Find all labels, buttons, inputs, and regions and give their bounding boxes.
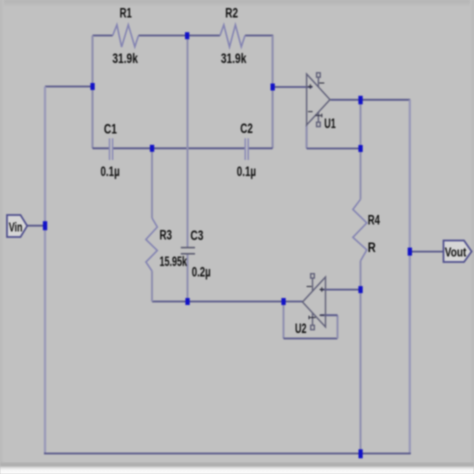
wire U2 output row to R3 C3 bottom — [152, 301, 303, 303]
wire top between R1 and R2 — [139, 35, 221, 37]
wire U2 top input to R4 line — [320, 289, 360, 291]
wire U1 output horizontal — [331, 99, 411, 101]
wire right vertical x272.6 down to C row — [272, 36, 274, 149]
svg-text:R1: R1 — [120, 6, 133, 21]
wire top from left corner to R1 — [93, 35, 113, 37]
svg-text:U2: U2 — [295, 321, 307, 336]
junction node U1 output — [358, 96, 362, 105]
wire Vout lead — [410, 251, 443, 253]
svg-text:U1: U1 — [324, 116, 336, 131]
svg-text:R3: R3 — [160, 228, 173, 243]
svg-text:R: R — [368, 240, 376, 255]
junction node bottom rail — [359, 449, 363, 458]
svg-text:0.2µ: 0.2µ — [192, 265, 211, 280]
svg-text:Vout: Vout — [445, 246, 467, 260]
wire left jog horizontal — [45, 86, 93, 88]
op-amp U2 — [303, 274, 326, 330]
wire far left vertical x45 — [44, 87, 46, 454]
wire U1 feedback vertical — [306, 125, 308, 149]
resistor R2 — [220, 25, 245, 47]
wire far right vertical x410 — [409, 100, 411, 454]
junction node left jog — [90, 83, 94, 90]
wire bottom rail — [44, 453, 411, 455]
wire R4 branch vertical — [359, 100, 361, 454]
port Vout — [444, 241, 472, 263]
junction node Vin — [43, 221, 47, 230]
capacitor C3 — [181, 248, 195, 254]
svg-text:R4: R4 — [368, 213, 381, 228]
junction node R1-R2-C3 — [185, 32, 189, 39]
svg-text:31.9k: 31.9k — [221, 51, 247, 66]
wire C1 C2 row — [93, 147, 273, 149]
svg-text:C2: C2 — [240, 121, 253, 136]
junction node U2 input R4 — [358, 286, 362, 293]
svg-text:Vin: Vin — [9, 221, 23, 235]
resistor R3 — [146, 218, 157, 271]
wire U1 + input — [273, 86, 313, 88]
junction node U2 output — [281, 298, 285, 305]
junction node U1 + input — [271, 84, 275, 91]
junction node Vout — [408, 248, 412, 256]
junction node feedback R4 — [358, 145, 362, 152]
capacitor C1 — [110, 138, 113, 160]
svg-text:0.1µ: 0.1µ — [237, 164, 256, 179]
svg-text:C1: C1 — [104, 122, 117, 137]
resistor R1 — [113, 25, 139, 47]
svg-text:31.9k: 31.9k — [112, 51, 138, 66]
wire U2 feedback box — [282, 302, 284, 339]
wire Vin lead — [27, 225, 45, 227]
wire top from R2 to right corner — [245, 35, 273, 37]
svg-text:15.95k: 15.95k — [160, 254, 188, 269]
junction node C3 bottom — [185, 298, 189, 305]
capacitor C2 — [245, 138, 248, 160]
svg-text:0.1µ: 0.1µ — [101, 164, 120, 179]
op-amp U1 — [307, 73, 330, 127]
resistor R4 — [353, 199, 367, 261]
svg-text:C3: C3 — [190, 228, 203, 243]
port Vin — [7, 215, 27, 237]
wire left vertical x92.5 — [91, 36, 93, 149]
wire R3 vertical leads — [151, 148, 153, 301]
svg-text:R2: R2 — [225, 6, 238, 21]
junction node R3 top — [150, 145, 154, 152]
wire C3 vertical — [186, 36, 188, 302]
wire U1 feedback horizontal — [307, 148, 361, 150]
